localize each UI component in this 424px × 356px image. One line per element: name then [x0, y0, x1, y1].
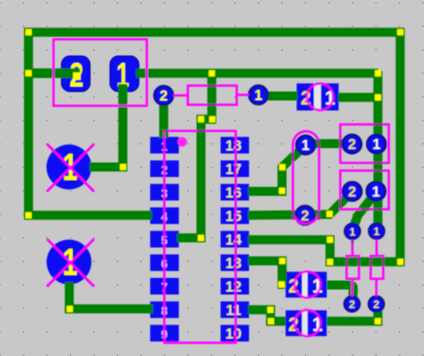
svg-text:1: 1	[374, 226, 380, 238]
diode D3 pad 1	[308, 310, 327, 336]
via R5 pad2 corner	[375, 318, 381, 324]
via tap mid top run	[209, 70, 215, 76]
silkscreen P2 cross	[47, 239, 94, 287]
via net1 bottom jog	[327, 259, 333, 265]
svg-text:14: 14	[225, 232, 241, 248]
svg-text:1: 1	[349, 226, 355, 238]
via D2 pad2 entry	[279, 281, 285, 287]
capacitor C1 pad 2	[296, 206, 315, 225]
svg-text:1: 1	[254, 88, 262, 104]
silkscreen CON1 outline	[54, 39, 147, 106]
diode D1 body gap	[314, 83, 321, 110]
wire CON1 pad1 down to corner	[90, 84, 123, 167]
wire branch to D1 pad 1	[338, 93, 378, 102]
silkscreen R4 leads	[351, 240, 354, 297]
wire D2 pad1 to R4 pad2	[327, 285, 353, 302]
via jog right	[209, 116, 215, 122]
silkscreen R1 lead right	[237, 94, 249, 96]
silkscreen R4 body	[347, 256, 359, 279]
wire IC pad16 to C1 pad1 to R2 pad2	[248, 144, 350, 192]
silkscreen R1 lead left	[173, 94, 187, 96]
silkscreen IC U1 outline	[164, 131, 235, 343]
resistor R4 pad 2	[344, 296, 359, 311]
silkscreen R3 outline	[340, 171, 389, 210]
label R2 pad2 "2"	[348, 137, 356, 153]
via left rail bottom corner	[25, 212, 31, 218]
label D2 pad2 "2"	[288, 276, 299, 297]
label D1 pad1 "1"	[325, 88, 336, 109]
silkscreen C1 obround	[293, 131, 319, 223]
silkscreen R1 body	[188, 86, 237, 105]
wire jog down middle of IC to pad 5	[177, 71, 212, 238]
wire R1 pad2 down to IC pad 1	[159, 99, 168, 138]
label R4 pad2 "2"	[349, 299, 355, 311]
IC U1 left pin numbers 1-9	[161, 139, 168, 341]
mounting pad P1 (crossed out)	[47, 145, 92, 190]
svg-text:18: 18	[225, 138, 241, 154]
dark crossings magenta over green	[164, 85, 384, 267]
label R3 pad2 "2"	[348, 185, 356, 201]
svg-text:2: 2	[348, 185, 356, 201]
diode D2 body gap	[302, 272, 307, 298]
svg-text:1: 1	[302, 138, 310, 154]
label R5 pad2 "2"	[373, 299, 379, 311]
via CON1 pad1 corner	[120, 164, 126, 170]
via diagonal corner C1	[279, 164, 285, 170]
resistor R1 pad 1	[249, 86, 268, 105]
via P2 corner	[67, 306, 73, 312]
connector CON1 pad 2	[62, 56, 91, 92]
via bottom-right corner	[397, 259, 403, 265]
diode D2 pad 2	[286, 272, 303, 298]
label CON1 pad1 "1"	[116, 57, 129, 95]
resistor R1 pad 2	[154, 86, 173, 105]
resistor R2 pad 1	[367, 135, 386, 154]
svg-text:15: 15	[225, 209, 241, 225]
svg-text:2: 2	[373, 299, 379, 311]
resistor R5 pad 2	[369, 296, 384, 311]
wire net1 left rail	[29, 30, 153, 215]
resistor R3 pad 2	[343, 182, 362, 201]
via on CON1 pad 2	[73, 72, 80, 80]
capacitor C1 pad 1	[296, 136, 315, 155]
resistor R2 pad 2	[343, 135, 362, 154]
via jog left	[198, 116, 204, 122]
wire IC pad13 to D2 pad2	[248, 261, 285, 285]
svg-text:16: 16	[225, 185, 241, 201]
resistor R3 pad 1	[367, 182, 386, 201]
silkscreen D1 circle	[307, 84, 333, 110]
via top-right corner	[397, 29, 403, 35]
label CON1 pad2 "2"	[70, 57, 84, 95]
svg-text:1: 1	[372, 137, 380, 153]
label R1 pad2 "2"	[160, 89, 168, 105]
diode D2 pad 1	[308, 272, 327, 298]
svg-text:12: 12	[225, 279, 241, 295]
via pad13 corner	[279, 258, 285, 264]
label P2 "1"	[63, 242, 78, 284]
wire net1 stub to CON1 pad 2	[26, 68, 80, 78]
silkscreen P1 cross	[47, 144, 94, 192]
silkscreen R2 outline	[340, 124, 389, 162]
svg-text:1: 1	[372, 184, 380, 200]
label R3 pad1 "1"	[372, 184, 380, 200]
wire R3 pad1 diagonal to R4 pad1	[353, 193, 376, 230]
IC U1 right pads 18-10	[221, 137, 249, 342]
wire inner vertical to R5 pad 1	[373, 71, 382, 231]
svg-text:10: 10	[225, 326, 241, 342]
svg-text:2: 2	[348, 137, 356, 153]
via left rail tap	[25, 70, 31, 76]
diode D3 body gap	[302, 310, 307, 336]
label C1 pad2 "2"	[301, 209, 309, 225]
via pad11 corner	[267, 307, 273, 313]
via D3 pad2 corner	[268, 318, 274, 324]
silkscreen D2 circle	[295, 272, 321, 298]
svg-text:17: 17	[225, 162, 241, 178]
label D3 pad2 "2"	[288, 315, 299, 336]
wire net1 top rail	[29, 32, 401, 262]
wire P2 down to IC pad 8	[69, 282, 153, 309]
resistor R4 pad 1	[345, 224, 360, 239]
connector CON1 pad 1	[110, 56, 139, 92]
svg-text:2: 2	[160, 89, 168, 105]
wire IC pad11 to D3 pad2	[248, 310, 286, 321]
label D2 pad1 "1"	[312, 276, 323, 297]
label D1 pad2 "2"	[301, 88, 312, 109]
label R1 pad1 "1"	[254, 88, 262, 104]
diode D3 pad 2	[286, 310, 303, 336]
wire D3 pad1 to R5 pad2	[327, 303, 378, 321]
svg-text:2: 2	[349, 299, 355, 311]
label R4 pad1 "1"	[349, 226, 355, 238]
via pad5 corner	[198, 235, 204, 241]
svg-text:13: 13	[225, 256, 241, 272]
via top run right corner	[375, 70, 381, 76]
IC U1 right pin numbers 18-10	[225, 138, 241, 342]
wire IC pad15 through C1 pad2 to R3 pad2	[248, 192, 352, 216]
IC U1 left pads 1-9	[150, 137, 179, 342]
silkscreen IC U1 pin1 dot	[177, 137, 187, 147]
label R5 pad1 "1"	[374, 226, 380, 238]
resistor R5 pad 1	[369, 223, 384, 238]
silkscreen R5 leads	[375, 239, 378, 296]
via top-left corner	[26, 29, 32, 35]
label D3 pad1 "1"	[312, 315, 323, 336]
diode D1 pad 1	[321, 83, 339, 110]
diode D1 pad 2	[297, 83, 314, 110]
via pad16 corner	[279, 188, 285, 194]
silkscreen D3 circle	[295, 310, 321, 336]
label C1 pad1 "1"	[302, 138, 310, 154]
silkscreen R5 body	[371, 256, 384, 279]
wire R1 pad1 to D1 pad 2	[258, 92, 297, 101]
mounting pad P2 (crossed out)	[47, 240, 92, 285]
wire CON1 pad1 east run	[136, 69, 378, 78]
label R2 pad1 "1"	[372, 137, 380, 153]
via C1 pad2 corner	[327, 211, 333, 217]
svg-text:11: 11	[226, 303, 241, 319]
via net1 pad14 corner	[327, 237, 333, 243]
via D1 branch	[375, 94, 381, 100]
label P1 "1"	[63, 147, 78, 189]
